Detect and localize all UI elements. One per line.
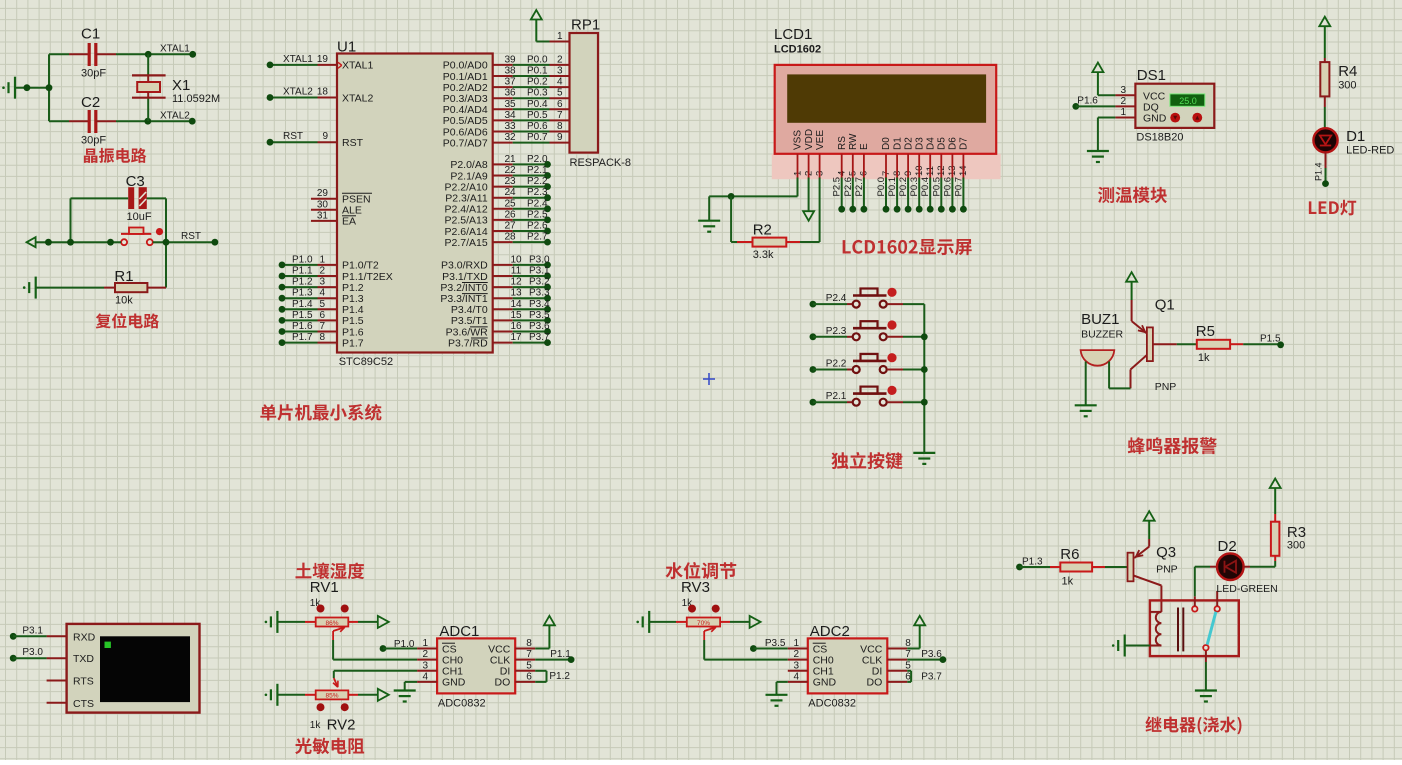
node P1.6 xyxy=(1072,95,1098,110)
svg-text:17: 17 xyxy=(510,332,522,343)
svg-text:1k: 1k xyxy=(1198,352,1210,364)
svg-text:ADC0832: ADC0832 xyxy=(438,698,486,710)
svg-text:28: 28 xyxy=(504,232,516,243)
svg-text:3: 3 xyxy=(1120,85,1126,96)
wire ADC1 VCC xyxy=(535,648,549,650)
junction dots reset rail xyxy=(45,239,218,246)
arrow (RV1 top rail) xyxy=(378,616,389,628)
node P1.5 xyxy=(1260,333,1284,348)
svg-text:3: 3 xyxy=(319,277,325,288)
wire ground to R1 xyxy=(36,287,104,289)
svg-text:C1: C1 xyxy=(81,26,100,43)
wire relay common to ground xyxy=(1205,651,1207,691)
svg-text:C2: C2 xyxy=(81,94,100,111)
svg-text:2: 2 xyxy=(319,266,325,277)
power arrow (LED lamp) xyxy=(1319,17,1330,58)
capacitor C1 xyxy=(69,26,116,80)
svg-text:31: 31 xyxy=(317,210,329,221)
adc ADC1 ADC0832 body xyxy=(437,623,515,710)
caption water level adjust xyxy=(665,562,736,579)
svg-text:P0.3: P0.3 xyxy=(909,177,920,197)
svg-text:DO: DO xyxy=(867,677,883,689)
ADC2 right pin stubs and numbers xyxy=(887,638,911,682)
svg-text:19: 19 xyxy=(317,54,329,65)
svg-text:VDD: VDD xyxy=(804,129,815,150)
U1 pins P3.0-P3.7 with node labels xyxy=(493,254,551,346)
svg-text:6: 6 xyxy=(319,310,325,321)
svg-text:11: 11 xyxy=(511,266,522,277)
svg-text:PNP: PNP xyxy=(1155,381,1177,393)
wire R4 to D1 xyxy=(1324,107,1326,128)
capacitor C3 xyxy=(126,173,152,223)
svg-text:D4: D4 xyxy=(925,137,936,150)
svg-text:10uF: 10uF xyxy=(127,211,152,223)
svg-text:6: 6 xyxy=(526,671,532,682)
svg-text:D2: D2 xyxy=(1218,538,1237,555)
arrow (RV2 rail) xyxy=(378,689,389,701)
svg-text:P3.0: P3.0 xyxy=(22,647,43,658)
svg-text:P1.0: P1.0 xyxy=(292,254,313,265)
U1 internal left pin names xyxy=(342,60,393,350)
svg-text:29: 29 xyxy=(317,188,329,199)
svg-text:22: 22 xyxy=(504,165,516,176)
wire C2 to XTAL2 node xyxy=(116,120,192,122)
svg-text:8: 8 xyxy=(526,638,532,649)
wire buzzer right pin to Q1 collector xyxy=(1109,362,1130,389)
buzzer BUZ1 xyxy=(1081,311,1124,366)
resistor pack RP1 xyxy=(570,17,632,170)
power arrow (Q1 emitter) xyxy=(1126,272,1137,300)
ground (relay common) xyxy=(1195,691,1217,702)
resistor R1 xyxy=(104,268,166,307)
svg-text:LCD1: LCD1 xyxy=(774,26,812,43)
svg-text:P0.7: P0.7 xyxy=(953,177,964,197)
svg-text:27: 27 xyxy=(504,221,516,232)
svg-text:33: 33 xyxy=(504,121,516,132)
wire RV2 wiper to ADC1 CH1 xyxy=(334,670,417,672)
svg-text:D6: D6 xyxy=(948,137,959,150)
junction dots button trunk xyxy=(921,333,928,405)
svg-text:4: 4 xyxy=(422,671,428,682)
wire RV2 left xyxy=(277,694,305,696)
wire ADC2 DI DO tie xyxy=(907,671,911,682)
svg-text:P0.1: P0.1 xyxy=(527,66,548,77)
resistor R6 xyxy=(1050,546,1105,588)
svg-text:18: 18 xyxy=(317,87,329,98)
svg-text:RW: RW xyxy=(848,133,859,150)
wire R2 to LCD VEE xyxy=(800,178,820,243)
svg-text:CH0: CH0 xyxy=(442,654,463,666)
svg-text:P2.5: P2.5 xyxy=(832,177,843,197)
svg-text:P0.1: P0.1 xyxy=(887,177,898,197)
ground (buttons) xyxy=(913,453,935,464)
svg-text:1: 1 xyxy=(422,638,428,649)
wire ADC2 VCC xyxy=(907,648,919,650)
push button P2.1 xyxy=(810,386,925,406)
svg-text:6: 6 xyxy=(557,99,563,110)
U1 internal right pin names xyxy=(440,60,488,350)
wire D2 to R3 xyxy=(1250,561,1275,567)
svg-text:2: 2 xyxy=(793,649,799,660)
svg-text:P0.2: P0.2 xyxy=(898,177,909,197)
wire RV3 right to arrow xyxy=(730,621,749,623)
node RST xyxy=(181,231,201,242)
ground (ADC2) xyxy=(766,695,788,706)
svg-text:D2: D2 xyxy=(903,137,914,150)
caption temperature module xyxy=(1098,187,1167,203)
virtual terminal body xyxy=(67,624,200,713)
svg-text:P1.6: P1.6 xyxy=(1077,95,1098,106)
wire RV3 left xyxy=(649,621,676,623)
LED D2 xyxy=(1210,538,1278,595)
svg-text:P0.5: P0.5 xyxy=(931,177,942,197)
potentiometer RV2 xyxy=(305,671,358,734)
svg-text:39: 39 xyxy=(504,54,516,65)
svg-text:300: 300 xyxy=(1338,80,1356,92)
svg-text:P3.1: P3.1 xyxy=(22,625,43,636)
power arrow (Q3 emitter) xyxy=(1144,511,1155,539)
svg-text:P0.0: P0.0 xyxy=(876,177,887,197)
svg-text:32: 32 xyxy=(504,132,516,143)
svg-text:1k: 1k xyxy=(310,720,322,731)
svg-text:P2.3: P2.3 xyxy=(826,326,847,337)
wire ADC1 GND to ground xyxy=(405,682,417,691)
wire RV3 wiper to ADC2 CH0 xyxy=(704,640,788,660)
node P1.3 xyxy=(1016,557,1043,571)
svg-text:VSS: VSS xyxy=(793,130,804,150)
svg-text:5: 5 xyxy=(526,660,532,671)
svg-text:P3.6: P3.6 xyxy=(529,321,550,332)
svg-text:CLK: CLK xyxy=(490,654,510,666)
svg-text:13: 13 xyxy=(510,288,522,299)
svg-text:XTAL2: XTAL2 xyxy=(160,111,190,122)
svg-text:XTAL2: XTAL2 xyxy=(283,87,313,98)
svg-text:9: 9 xyxy=(557,132,563,143)
ground (relay coil) xyxy=(1112,635,1125,657)
svg-text:3.3k: 3.3k xyxy=(753,249,774,261)
svg-text:26: 26 xyxy=(504,209,516,220)
svg-text:P3.1: P3.1 xyxy=(529,266,550,277)
svg-text:RP1: RP1 xyxy=(571,17,600,34)
relay contacts xyxy=(1192,591,1220,650)
svg-text:P0.7: P0.7 xyxy=(527,132,548,143)
svg-text:7: 7 xyxy=(557,110,563,121)
junction dot A2 xyxy=(46,84,53,91)
LED D1 xyxy=(1313,128,1394,157)
adc ADC2 ADC0832 body xyxy=(808,623,888,710)
svg-text:14: 14 xyxy=(510,299,522,310)
svg-text:P2.2: P2.2 xyxy=(527,176,548,187)
node XTAL1 xyxy=(145,44,196,58)
svg-text:P0.4: P0.4 xyxy=(527,99,548,110)
svg-text:P2.3: P2.3 xyxy=(527,187,548,198)
svg-text:GND: GND xyxy=(442,677,466,689)
svg-text:4: 4 xyxy=(319,288,325,299)
wire P3.0 to TXD xyxy=(13,657,46,659)
svg-text:P0.5: P0.5 xyxy=(527,110,548,121)
svg-text:P3.3: P3.3 xyxy=(529,288,550,299)
U1 pins P0.0-P0.7 wires to RP1 xyxy=(493,54,570,143)
svg-text:R3: R3 xyxy=(1287,524,1306,541)
node P1.0 xyxy=(380,639,415,652)
svg-text:RST: RST xyxy=(181,231,201,242)
wire button common trunk xyxy=(923,304,925,452)
svg-text:1: 1 xyxy=(557,31,563,42)
svg-text:P1.4: P1.4 xyxy=(1314,162,1324,181)
junction dot VSS/R2 xyxy=(728,193,735,200)
svg-text:XTAL1: XTAL1 xyxy=(342,60,373,72)
svg-text:DS1: DS1 xyxy=(1137,67,1166,84)
svg-text:30: 30 xyxy=(317,199,329,210)
svg-text:Q3: Q3 xyxy=(1156,544,1176,561)
svg-text:P1.3: P1.3 xyxy=(292,288,313,299)
svg-text:P2.6: P2.6 xyxy=(843,177,854,197)
resistor R2 xyxy=(737,222,800,262)
svg-text:P1.1: P1.1 xyxy=(550,649,571,660)
svg-text:5: 5 xyxy=(557,88,563,99)
svg-text:1k: 1k xyxy=(1062,576,1074,588)
svg-text:LED-GREEN: LED-GREEN xyxy=(1216,583,1277,595)
power arrow down (LCD VDD) xyxy=(803,178,814,221)
svg-text:XTAL1: XTAL1 xyxy=(160,44,190,55)
ground (DS1) xyxy=(1087,151,1109,162)
svg-text:37: 37 xyxy=(504,77,516,88)
display LCD1 body xyxy=(772,26,1001,179)
svg-text:P3.5: P3.5 xyxy=(765,638,786,649)
transistor Q3 xyxy=(1128,539,1178,612)
svg-text:7: 7 xyxy=(319,321,325,332)
svg-text:30pF: 30pF xyxy=(81,68,106,80)
wire ADC2 GND to ground xyxy=(777,682,788,695)
ground (ADC1) xyxy=(394,691,416,702)
svg-text:86%: 86% xyxy=(325,620,338,627)
svg-text:RV3: RV3 xyxy=(681,579,710,596)
svg-text:P1.4: P1.4 xyxy=(292,299,313,310)
wire ADC1 CLK to P1.1 xyxy=(535,659,571,661)
svg-text:RV1: RV1 xyxy=(310,579,339,596)
ground (reset circuit) xyxy=(23,277,36,299)
svg-text:LCD1602: LCD1602 xyxy=(774,44,821,56)
svg-text:P0.6: P0.6 xyxy=(942,177,953,197)
svg-text:15: 15 xyxy=(510,310,522,321)
svg-text:D7: D7 xyxy=(959,137,970,150)
svg-text:5: 5 xyxy=(905,660,911,671)
svg-text:PNP: PNP xyxy=(1156,564,1178,576)
wire RV2 right to arrow xyxy=(358,694,378,696)
svg-text:RXD: RXD xyxy=(73,631,96,643)
power arrow (R3) xyxy=(1270,479,1281,515)
ground (RV3) xyxy=(636,611,649,633)
svg-text:8: 8 xyxy=(905,638,911,649)
svg-text:D1: D1 xyxy=(892,137,903,150)
caption crystal circuit xyxy=(84,148,146,163)
svg-text:P0.7/AD7: P0.7/AD7 xyxy=(443,137,488,149)
svg-text:P2.4: P2.4 xyxy=(826,293,847,304)
origin marker xyxy=(703,373,715,385)
svg-text:4: 4 xyxy=(557,77,563,88)
relay switch blade xyxy=(1207,612,1216,645)
push button P2.3 xyxy=(810,320,925,340)
svg-text:GND: GND xyxy=(813,677,837,689)
wire R5 to P1.5 xyxy=(1243,343,1280,345)
svg-text:P1.5: P1.5 xyxy=(1260,333,1281,344)
node P3.7 xyxy=(921,672,942,683)
svg-text:R4: R4 xyxy=(1338,63,1357,80)
svg-text:P2.7/A15: P2.7/A15 xyxy=(444,237,487,249)
svg-text:23: 23 xyxy=(504,176,516,187)
crystal X1 xyxy=(132,75,220,105)
svg-text:P1.7: P1.7 xyxy=(342,337,364,349)
svg-text:7: 7 xyxy=(526,649,532,660)
svg-text:R2: R2 xyxy=(753,222,772,239)
svg-text:CH0: CH0 xyxy=(813,654,834,666)
node P3.1 xyxy=(10,625,44,639)
svg-text:D3: D3 xyxy=(914,137,925,150)
wire ADC1 DI DO tie xyxy=(535,671,546,682)
wire ADC2 CLK to P3.6 xyxy=(907,659,943,661)
U1 pins XTAL1 XTAL2 RST with wires and node labels xyxy=(267,54,337,146)
svg-text:XTAL1: XTAL1 xyxy=(283,54,313,65)
svg-text:P2.6: P2.6 xyxy=(527,221,548,232)
svg-text:RV2: RV2 xyxy=(327,717,356,734)
push button P2.2 xyxy=(810,353,925,373)
svg-text:1: 1 xyxy=(793,638,799,649)
ground (buzzer) xyxy=(1075,405,1097,416)
svg-text:VEE: VEE xyxy=(815,130,826,150)
node P1.4 xyxy=(1314,162,1329,187)
svg-text:3: 3 xyxy=(422,660,428,671)
svg-text:D0: D0 xyxy=(881,137,892,150)
caption soil moisture xyxy=(296,562,365,579)
svg-text:38: 38 xyxy=(504,66,516,77)
svg-text:R6: R6 xyxy=(1060,546,1079,563)
svg-text:P1.2: P1.2 xyxy=(549,671,570,682)
caption reset circuit xyxy=(96,313,159,328)
svg-text:1: 1 xyxy=(1120,107,1126,118)
U1 pins P2.0-P2.7 with node labels xyxy=(493,154,551,246)
svg-text:STC89C52: STC89C52 xyxy=(339,356,393,368)
svg-text:34: 34 xyxy=(504,110,516,121)
ADC2 left pin stubs and numbers xyxy=(788,638,808,682)
ground (LCD VSS) xyxy=(698,221,720,232)
svg-text:P3.2: P3.2 xyxy=(529,277,550,288)
svg-text:P2.7: P2.7 xyxy=(854,177,865,197)
svg-text:85%: 85% xyxy=(325,693,338,700)
svg-text:5: 5 xyxy=(319,299,325,310)
wire R6 to Q3 base xyxy=(1105,566,1128,568)
svg-text:2: 2 xyxy=(557,54,563,65)
svg-text:EA: EA xyxy=(342,216,356,228)
svg-text:36: 36 xyxy=(504,88,516,99)
svg-text:R5: R5 xyxy=(1196,323,1215,340)
svg-text:10k: 10k xyxy=(115,295,133,307)
svg-text:E: E xyxy=(859,143,870,150)
caption MCU minimal system xyxy=(260,404,381,421)
node XTAL2 xyxy=(144,111,195,125)
svg-text:P2.4: P2.4 xyxy=(527,198,548,209)
potentiometer RV3 xyxy=(676,579,730,640)
svg-text:P2.1: P2.1 xyxy=(826,391,847,402)
svg-text:P3.7/RD: P3.7/RD xyxy=(448,337,488,349)
svg-text:P2.7: P2.7 xyxy=(527,232,548,243)
caption photoresistor xyxy=(295,738,364,754)
svg-text:21: 21 xyxy=(504,154,516,165)
svg-text:TXD: TXD xyxy=(73,653,94,665)
svg-text:P0.0: P0.0 xyxy=(527,54,548,65)
wire P1.0 to ADC1 CS xyxy=(383,648,417,650)
caption LCD1602 display xyxy=(843,239,972,255)
wire buzzer left pin to ground xyxy=(1085,362,1087,406)
svg-text:XTAL2: XTAL2 xyxy=(342,92,373,104)
wire RV1 wiper to ADC1 CH0 xyxy=(333,640,417,660)
caption LED lamp xyxy=(1309,200,1356,216)
svg-text:P2.2: P2.2 xyxy=(826,359,847,370)
svg-text:RESPACK-8: RESPACK-8 xyxy=(570,157,632,169)
svg-text:DS18B20: DS18B20 xyxy=(1136,132,1183,144)
sensor DS1 DS18B20 body xyxy=(1135,67,1214,144)
relay RL1 body xyxy=(1150,600,1239,656)
svg-text:Q1: Q1 xyxy=(1155,297,1175,314)
svg-text:P1.7: P1.7 xyxy=(292,332,313,343)
node P3.5 xyxy=(750,638,786,652)
wire D1 to P1.4 xyxy=(1325,152,1327,183)
wire C3 right branch xyxy=(147,198,166,287)
resistor R4 xyxy=(1320,58,1357,107)
junction dot A1 xyxy=(24,84,31,91)
svg-text:2: 2 xyxy=(1120,96,1126,107)
U1 pins 29 30 31 stubs xyxy=(311,188,337,221)
svg-text:8: 8 xyxy=(557,121,563,132)
wire DS1 DQ xyxy=(1076,105,1116,107)
U1 XTAL1 clock marker xyxy=(338,62,342,68)
node P1.1 xyxy=(550,649,574,663)
svg-text:24: 24 xyxy=(504,187,516,198)
svg-text:9: 9 xyxy=(322,131,328,142)
capacitor C2 xyxy=(69,94,116,147)
LCD1 pin names and pin numbers xyxy=(792,129,969,178)
wire reset rail xyxy=(36,241,215,243)
svg-text:16: 16 xyxy=(510,321,522,332)
wire P1.3 to R6 xyxy=(1020,566,1051,568)
svg-text:25: 25 xyxy=(504,198,516,209)
svg-text:P1.3: P1.3 xyxy=(1022,557,1043,568)
svg-text:P0.6: P0.6 xyxy=(527,121,548,132)
wire LCD VSS to ground xyxy=(709,178,797,221)
ground (RV2) xyxy=(265,684,278,706)
ADC1 right pin stubs and numbers xyxy=(515,638,535,682)
svg-text:25.0: 25.0 xyxy=(1179,96,1197,106)
chip U1 STC89C52 xyxy=(337,39,493,369)
left arrow (reset rail) xyxy=(27,237,36,247)
svg-text:BUZZER: BUZZER xyxy=(1081,329,1123,341)
svg-text:30pF: 30pF xyxy=(81,135,106,147)
ADC1 left pin stubs and numbers xyxy=(417,638,437,682)
svg-text:P3.6: P3.6 xyxy=(921,649,942,660)
resistor R5 xyxy=(1196,323,1243,364)
svg-text:1: 1 xyxy=(319,254,325,265)
wire D2 anode to relay contact xyxy=(1195,567,1210,606)
svg-text:CTS: CTS xyxy=(73,698,94,710)
arrow (RV3 rail) xyxy=(750,616,761,628)
svg-text:RST: RST xyxy=(342,137,364,149)
svg-text:P1.1: P1.1 xyxy=(292,266,313,277)
svg-text:11.0592M: 11.0592M xyxy=(172,93,220,105)
svg-text:P0.4: P0.4 xyxy=(920,177,931,197)
svg-text:2: 2 xyxy=(422,649,428,660)
svg-text:D5: D5 xyxy=(937,137,948,150)
power arrow (DS1 VCC) xyxy=(1092,63,1103,96)
svg-text:P0.3: P0.3 xyxy=(527,88,548,99)
